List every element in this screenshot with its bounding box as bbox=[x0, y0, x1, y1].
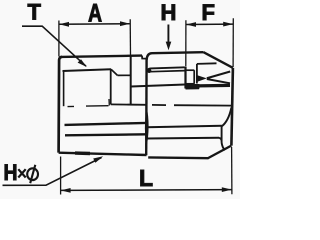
dim A line bbox=[59, 23, 130, 26]
socket end vertical bbox=[130, 56, 132, 105]
socket bottom edge bbox=[59, 153, 147, 155]
shelf vertical bbox=[196, 64, 198, 84]
sleeve rect right bbox=[193, 70, 195, 84]
nut left edge bbox=[145, 59, 148, 156]
leader HxPhi bbox=[3, 158, 102, 186]
extension A left bbox=[58, 21, 60, 57]
dim L line bbox=[61, 189, 232, 192]
sleeve bottom dark band bbox=[185, 84, 199, 89]
nut left edge bulge bbox=[145, 107, 149, 148]
phi slash bbox=[30, 165, 35, 183]
leader T arrowhead bbox=[78, 59, 87, 67]
bore line at axis bbox=[111, 104, 231, 105]
phi circle bbox=[27, 168, 38, 180]
extension L right bbox=[231, 147, 233, 194]
extension F left bbox=[185, 20, 187, 66]
bore line mid bbox=[131, 85, 185, 87]
nut chamfer top right bbox=[204, 52, 233, 68]
flare cone solid tip bbox=[197, 75, 207, 82]
socket hex line lower bbox=[65, 134, 146, 135]
nut inner line 1 bbox=[147, 67, 185, 71]
hex line2 corner curve bbox=[219, 138, 222, 141]
pointer H arrowhead bbox=[166, 42, 172, 51]
flare cone upper line bbox=[207, 72, 230, 79]
drill tick bbox=[108, 99, 110, 106]
socket bottom edge dark smudge bbox=[75, 151, 90, 155]
sleeve rect top bbox=[186, 69, 195, 71]
nut inner corner blob bbox=[147, 69, 151, 73]
nut chamfer bottom right bbox=[208, 146, 232, 159]
centerline dashes bbox=[68, 105, 109, 108]
flare bottom thick line bbox=[198, 84, 231, 88]
flare cone lower line bbox=[207, 79, 230, 83]
nut chamfer arc lower bbox=[222, 143, 225, 151]
sleeve rect bottom bbox=[186, 83, 195, 85]
dim L arrow right bbox=[222, 187, 232, 192]
nut bottom edge bbox=[148, 156, 208, 159]
dim A arrow left bbox=[59, 22, 69, 27]
bore step piece bbox=[186, 87, 200, 89]
svg-text:F: F bbox=[202, 0, 215, 25]
leader HxPhi arrowhead bbox=[93, 156, 103, 163]
svg-text:T: T bbox=[28, 0, 42, 25]
thread relief vertical bbox=[63, 71, 65, 106]
dim F arrow left bbox=[186, 22, 196, 27]
svg-text:H: H bbox=[4, 161, 18, 185]
thread chamfer bbox=[111, 69, 118, 75]
body step to nut bbox=[142, 56, 147, 59]
extension A right bbox=[129, 19, 131, 56]
nut hex corner vertical bbox=[221, 126, 223, 142]
nut hex line lower bbox=[147, 137, 220, 140]
dim F arrow right bbox=[223, 22, 233, 27]
thread line bbox=[63, 69, 112, 71]
dim A arrow right bbox=[120, 21, 130, 26]
counterbore line bbox=[118, 74, 132, 76]
svg-text:L: L bbox=[139, 165, 153, 191]
dim F line bbox=[186, 23, 233, 25]
nut inner line 2 bbox=[150, 71, 185, 72]
nut top-left corner and top edge bbox=[147, 52, 204, 59]
socket hex line upper bbox=[65, 123, 147, 125]
right edge bbox=[231, 68, 233, 146]
nut chamfer arc upper bbox=[222, 108, 232, 127]
svg-text:A: A bbox=[88, 0, 102, 27]
part outline: socket top edge bbox=[59, 57, 62, 153]
svg-text:H: H bbox=[161, 0, 177, 25]
thread end vertical bbox=[110, 70, 112, 105]
dim L arrow left bbox=[61, 188, 71, 193]
extension L left bbox=[60, 157, 62, 195]
sleeve left vertical bbox=[184, 67, 186, 89]
pointer H line bbox=[167, 25, 169, 43]
extension F right bbox=[232, 18, 234, 67]
times sign bbox=[18, 169, 25, 177]
leader T underline bbox=[22, 26, 86, 66]
nut hex line upper (external view) bbox=[147, 126, 222, 127]
shelf line bbox=[197, 62, 217, 65]
